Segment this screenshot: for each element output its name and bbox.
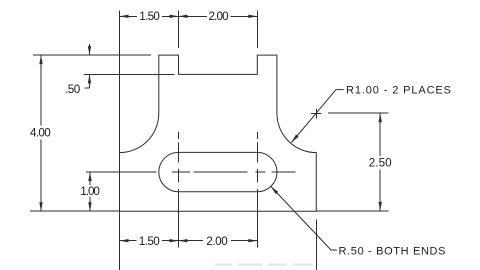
arrowheads bottom 1.50 bbox=[120, 239, 129, 242]
svg-text:1.50: 1.50 bbox=[139, 10, 160, 23]
svg-text:1.50: 1.50 bbox=[139, 235, 160, 248]
left extension line y=54.4 bbox=[33, 54, 151, 56]
arrowhead leader R1.00 bbox=[292, 135, 299, 143]
slot outline bbox=[159, 152, 277, 191]
slot left vertical centerline bbox=[178, 132, 180, 248]
svg-text:4.00: 4.00 bbox=[30, 127, 51, 140]
svg-text:2.00: 2.00 bbox=[206, 235, 228, 248]
arrowheads 1.00 bbox=[88, 172, 91, 181]
arrowheads top dim 1.50 bbox=[120, 15, 129, 18]
part outline bbox=[120, 55, 317, 211]
svg-text:.50: .50 bbox=[65, 83, 81, 96]
dimension 1.00 line bbox=[89, 172, 91, 211]
top extension lines bbox=[179, 10, 258, 48]
leader R1.00 bbox=[292, 90, 344, 143]
faint cut-off text remnants at bottom bbox=[215, 263, 313, 265]
arrowhead leader R.50 bbox=[271, 186, 278, 194]
svg-text:2.50: 2.50 bbox=[369, 157, 392, 170]
bottom dimension 1.50 line bbox=[120, 240, 179, 242]
svg-text:R.50 - BOTH ENDS: R.50 - BOTH ENDS bbox=[339, 246, 446, 258]
bottom dimension 2.00 line bbox=[179, 240, 258, 242]
svg-text:R1.00 - 2 PLACES: R1.00 - 2 PLACES bbox=[346, 84, 451, 96]
dimension .50 arrows lines bbox=[84, 44, 89, 88]
arrowheads 2.50 bbox=[379, 113, 382, 122]
fillet center cross bbox=[311, 108, 322, 118]
top dimension 1.50 line bbox=[120, 15, 179, 17]
slot horizontal centerline bbox=[86, 171, 296, 173]
dimension 2.50 line bbox=[379, 113, 381, 211]
arrowheads .50 bbox=[88, 46, 91, 55]
left extension line y=74.1 bbox=[84, 73, 175, 75]
extension line left (base left edge, full height) bbox=[119, 10, 121, 270]
svg-text:1.00: 1.00 bbox=[80, 185, 100, 198]
svg-text:2.00: 2.00 bbox=[209, 10, 230, 23]
right extension line x=316 below bbox=[315, 220, 317, 270]
dimension 2.50 top extension bbox=[328, 112, 389, 114]
arrowheads 4.00 bbox=[39, 55, 42, 64]
bottom extension line y=211.5 bbox=[30, 210, 389, 212]
leader R.50 bbox=[271, 186, 337, 250]
dimension 4.00 line bbox=[40, 56, 42, 211]
top dimension 2.00 line bbox=[179, 15, 258, 17]
slot right vertical centerline bbox=[256, 132, 258, 248]
